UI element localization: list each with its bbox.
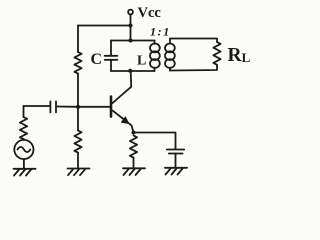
wire secondary top to RL [170, 39, 217, 43]
wire coupling cap to base node [57, 106, 78, 108]
wire base [78, 106, 110, 108]
capacitor C (tank) [105, 41, 118, 72]
ground (bypass cap) [165, 168, 187, 175]
wire RL bottom to secondary bottom [170, 65, 217, 71]
wire input to coupling cap [24, 105, 50, 107]
node emitter junction [132, 131, 136, 135]
resistor Rs (source) [20, 117, 27, 139]
transformer secondary winding [165, 39, 175, 71]
resistor R2 (lower bias) [74, 131, 81, 153]
wire base node to R2 [77, 107, 79, 131]
inductor L / transformer primary [150, 41, 160, 72]
svg-text:L: L [137, 54, 146, 69]
svg-text:1:1: 1:1 [150, 25, 171, 39]
wire collector drop from tank [113, 71, 132, 103]
ground (input) [14, 169, 36, 176]
ground (R2) [68, 169, 90, 176]
svg-text:RL: RL [228, 45, 251, 66]
transistor Q1 base bar [110, 97, 113, 117]
junction dot tank bottom [128, 69, 132, 73]
wire Vcc terminal to top rail [130, 14, 132, 40]
wire emitter node to bypass cap [134, 133, 176, 149]
junction dot on Vcc line at top rail [129, 24, 133, 28]
resistor RL (load) [213, 42, 220, 65]
wire tank top [111, 40, 155, 42]
wire R1 to base node [77, 74, 79, 107]
ground (RE) [123, 168, 145, 175]
wire input branch corner [23, 106, 25, 117]
wire RE to ground [133, 158, 135, 169]
wire AC source to ground [23, 159, 25, 169]
wire left rail upper segment [77, 26, 79, 53]
AC source [14, 139, 33, 159]
wire tank bottom [111, 70, 155, 72]
svg-text:Vcc: Vcc [138, 5, 162, 21]
wire top rail [78, 25, 131, 27]
coupling capacitor [50, 101, 56, 112]
Vcc terminal [128, 10, 133, 15]
bypass capacitor CE [167, 150, 184, 168]
node base junction [76, 105, 80, 109]
svg-text:C: C [91, 51, 103, 68]
resistor RE (emitter) [130, 136, 137, 158]
wire R2 to ground [77, 153, 79, 169]
transistor Q1 emitter with arrow [113, 111, 134, 133]
junction dot tank top [129, 39, 133, 43]
resistor R1 (upper bias) [74, 52, 81, 74]
